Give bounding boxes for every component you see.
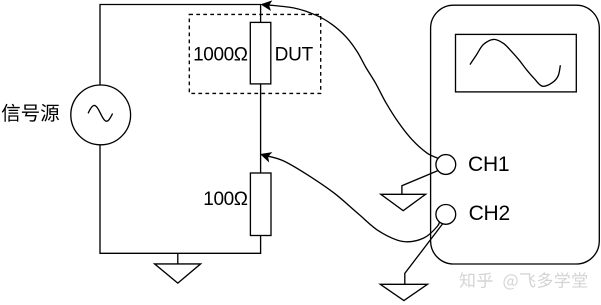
label XinHaoYuan (signal source) bbox=[2, 104, 59, 122]
screen sine waveform bbox=[470, 39, 560, 86]
CH2 probe ground symbol bbox=[380, 284, 427, 300]
oscilloscope screen bbox=[456, 34, 577, 92]
oscilloscope body U1 bbox=[431, 5, 600, 264]
arrowhead at DUT top node bbox=[262, 1, 271, 10]
CH2 probe wire (curve to middle node) bbox=[262, 155, 441, 242]
svg-text:DUT: DUT bbox=[275, 44, 314, 65]
CH2 connector circle bbox=[436, 205, 456, 225]
CH1 probe ground symbol bbox=[381, 194, 426, 210]
arrowhead at middle node bbox=[261, 153, 271, 161]
CH1 connector circle bbox=[436, 155, 456, 175]
wire: DUT bottom to 100ohm top (node between) bbox=[260, 84, 262, 173]
svg-text:CH2: CH2 bbox=[469, 202, 510, 225]
resistor DUT 1000ohm bbox=[250, 22, 270, 84]
CH2 probe ground wire bbox=[405, 222, 444, 284]
svg-text:100Ω: 100Ω bbox=[203, 189, 248, 210]
svg-text:CH1: CH1 bbox=[468, 153, 509, 176]
CH1 probe wire (curve to DUT top node) bbox=[262, 4, 439, 158]
svg-text:1000Ω: 1000Ω bbox=[193, 44, 248, 65]
watermark zhihu bbox=[460, 272, 587, 289]
dashed box around DUT bbox=[189, 14, 320, 93]
resistor 100ohm bbox=[250, 173, 271, 236]
wire top: source to DUT top bbox=[100, 5, 261, 86]
signal source circle bbox=[71, 85, 131, 145]
signal source sine symbol bbox=[88, 105, 113, 121]
wire bottom: source to 100ohm bottom bbox=[100, 145, 261, 254]
ground (main circuit) bbox=[155, 253, 201, 283]
CH1 probe ground wire bbox=[402, 171, 438, 195]
